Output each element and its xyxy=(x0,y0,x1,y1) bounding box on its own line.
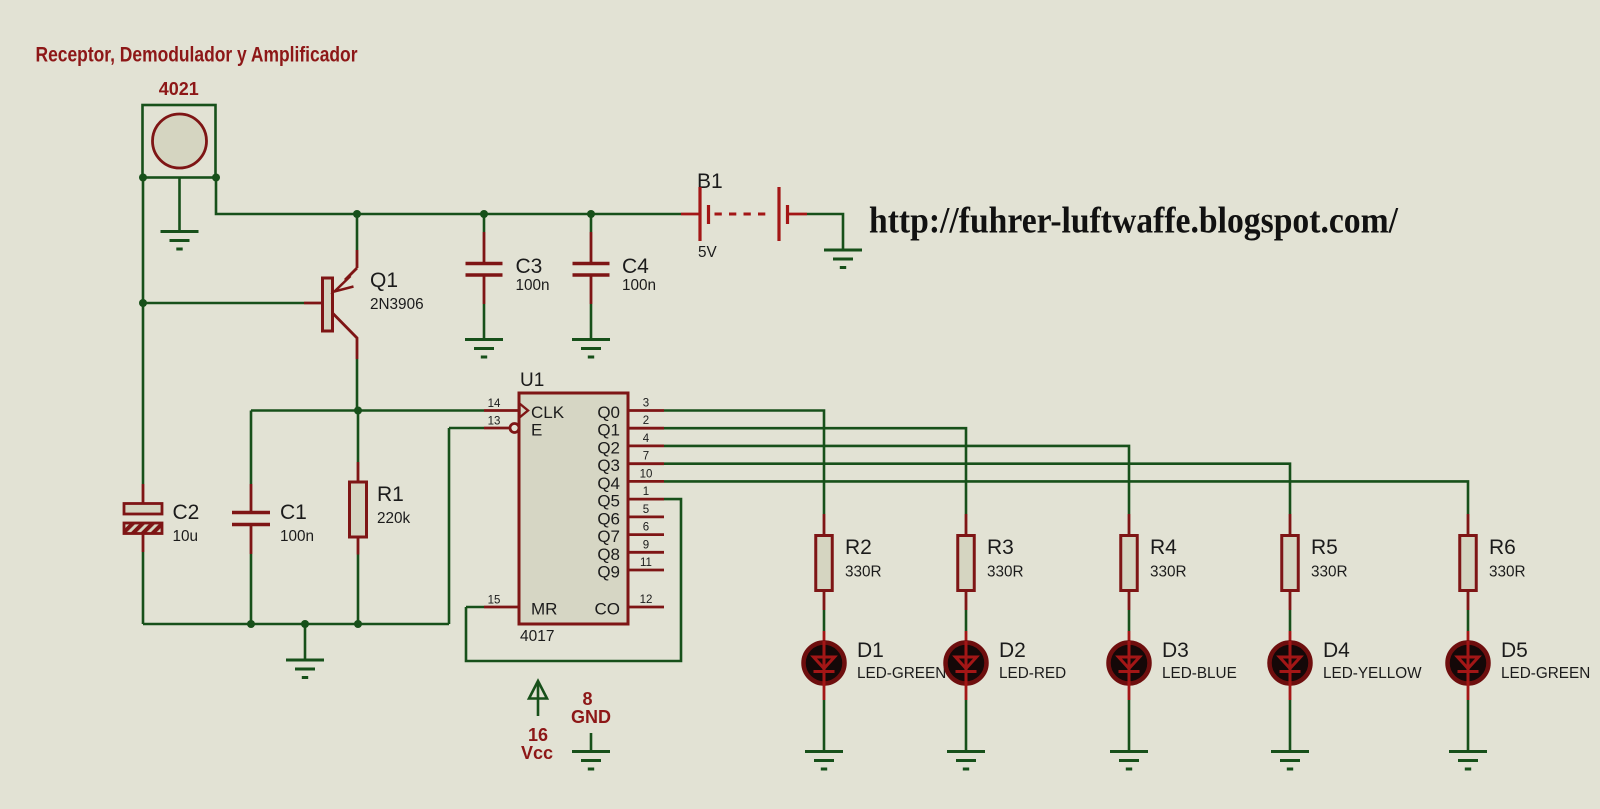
svg-text:R3: R3 xyxy=(987,536,1014,559)
value LED-YELLOW xyxy=(1323,665,1422,682)
value 100n (C3) xyxy=(516,277,550,294)
svg-text:1: 1 xyxy=(643,486,649,498)
resistor R1 pin top xyxy=(357,462,360,482)
pin 5 Q6 xyxy=(628,516,664,519)
pin name Q6 xyxy=(597,509,620,528)
wire D4 to ground xyxy=(1289,700,1292,752)
pin 15 MR xyxy=(484,606,519,609)
pin 1 Q5 xyxy=(628,498,664,501)
svg-text:10: 10 xyxy=(640,468,653,480)
label D5 xyxy=(1501,639,1528,662)
svg-text:R6: R6 xyxy=(1489,536,1516,559)
capacitor C1 xyxy=(232,513,270,525)
wire C3 top lead xyxy=(483,214,486,232)
label R5 xyxy=(1311,536,1338,559)
svg-text:100n: 100n xyxy=(280,528,314,545)
pin number 11 xyxy=(640,557,652,569)
svg-text:330R: 330R xyxy=(1489,564,1526,581)
pin number 7 xyxy=(643,451,649,463)
svg-text:LED-YELLOW: LED-YELLOW xyxy=(1323,665,1422,682)
wire R1 to bottom rail xyxy=(357,555,360,625)
svg-text:Q5: Q5 xyxy=(597,492,620,511)
wire rail ground stem xyxy=(304,624,307,660)
svg-text:Vcc: Vcc xyxy=(521,743,553,763)
svg-text:2N3906: 2N3906 xyxy=(370,296,424,313)
pin 9 Q8 xyxy=(628,551,664,554)
pin number 15 xyxy=(488,595,501,607)
resistor R1 xyxy=(350,482,367,537)
transistor Q1 collector xyxy=(333,313,358,359)
wire E row xyxy=(449,427,484,430)
pin number 16 xyxy=(528,725,548,745)
pin number 1 xyxy=(643,486,649,498)
resistor R4 pin top xyxy=(1128,514,1131,536)
pin number 9 xyxy=(643,539,649,551)
ground under D2 xyxy=(947,752,985,770)
svg-text:12: 12 xyxy=(640,594,653,606)
label D4 xyxy=(1323,639,1350,662)
svg-text:R5: R5 xyxy=(1311,536,1338,559)
node emitter junction xyxy=(353,210,361,218)
svg-text:LED-RED: LED-RED xyxy=(999,665,1066,682)
svg-text:Q3: Q3 xyxy=(597,456,620,475)
svg-text:D3: D3 xyxy=(1162,639,1189,662)
pin number 6 xyxy=(643,522,649,534)
wire Q0 to R2 column xyxy=(664,411,824,515)
svg-text:5V: 5V xyxy=(698,244,718,261)
pin name MR xyxy=(531,600,557,619)
svg-text:11: 11 xyxy=(640,557,652,569)
svg-text:13: 13 xyxy=(488,416,501,428)
svg-text:Q9: Q9 xyxy=(597,563,620,582)
resistor R1 pin bottom xyxy=(357,537,360,555)
LED D1 xyxy=(804,631,845,700)
pin name Q5 xyxy=(597,492,620,511)
wire R2 to D1 xyxy=(823,610,826,631)
svg-text:Q7: Q7 xyxy=(597,527,620,546)
svg-text:C1: C1 xyxy=(280,501,307,524)
capacitor C2 pin top xyxy=(142,484,145,504)
resistor R2 pin top xyxy=(823,514,826,536)
svg-text:7: 7 xyxy=(643,451,649,463)
label B1 xyxy=(697,170,723,193)
resistor R6 pin bottom xyxy=(1467,591,1470,611)
pin number 2 xyxy=(643,415,649,427)
wire MR left xyxy=(466,606,484,609)
wire C4 to ground xyxy=(590,304,593,340)
node base tee xyxy=(139,299,147,307)
svg-text:D2: D2 xyxy=(999,639,1026,662)
pin 12 CO xyxy=(628,606,664,609)
wire D2 to ground xyxy=(965,700,968,752)
pin name CLK xyxy=(531,403,565,422)
wire R1 top lead xyxy=(357,411,360,463)
pin name Q7 xyxy=(597,527,620,546)
resistor R5 xyxy=(1282,536,1299,591)
resistor R6 pin top xyxy=(1467,514,1470,536)
svg-text:10u: 10u xyxy=(173,528,199,545)
value LED-BLUE xyxy=(1162,665,1237,682)
label C3 xyxy=(516,255,543,278)
wire Q1 emitter up xyxy=(356,214,359,250)
value 5V xyxy=(698,244,718,261)
transistor Q1 base pin xyxy=(304,302,323,305)
svg-text:MR: MR xyxy=(531,600,557,619)
capacitor C4 xyxy=(573,264,610,276)
svg-text:5: 5 xyxy=(643,504,649,516)
value 330R (R6) xyxy=(1489,564,1526,581)
capacitor C3 xyxy=(466,264,503,276)
resistor R4 xyxy=(1121,536,1138,591)
op-amp U1 body xyxy=(519,393,628,624)
wire receiver center to ground xyxy=(178,178,181,232)
wire battery to ground xyxy=(807,214,843,250)
label R1 xyxy=(377,483,404,506)
wire E vertical xyxy=(448,428,451,624)
value LED-GREEN xyxy=(857,665,946,682)
node receiver left pin xyxy=(139,174,147,182)
pin name Q4 xyxy=(597,474,620,493)
svg-text:9: 9 xyxy=(643,539,649,551)
wire base horizontal xyxy=(143,302,304,305)
title text xyxy=(36,44,358,67)
label C1 xyxy=(280,501,307,524)
pin 11 Q9 xyxy=(628,569,664,572)
value 330R (R3) xyxy=(987,564,1024,581)
svg-text:330R: 330R xyxy=(845,564,882,581)
value 330R (R5) xyxy=(1311,564,1348,581)
capacitor C3 pin bottom xyxy=(483,277,486,305)
label Q1 xyxy=(370,269,398,292)
LED D3 xyxy=(1109,631,1150,700)
value 330R (R4) xyxy=(1150,564,1187,581)
svg-text:Q1: Q1 xyxy=(597,421,620,440)
capacitor C4 pin bottom xyxy=(590,277,593,305)
wire C1 to bottom rail xyxy=(250,554,253,624)
wire C3 to ground xyxy=(483,304,486,340)
svg-text:330R: 330R xyxy=(987,564,1024,581)
pin 10 Q4 xyxy=(628,480,664,483)
node ground tee xyxy=(301,620,309,628)
svg-text:16: 16 xyxy=(528,725,548,745)
svg-text:E: E xyxy=(531,421,542,440)
capacitor C2 xyxy=(124,504,162,534)
ground right of battery xyxy=(824,250,862,268)
label GND xyxy=(571,707,611,727)
wire Q4 to R6 column xyxy=(664,481,1468,514)
label R6 xyxy=(1489,536,1516,559)
resistor R5 pin bottom xyxy=(1289,591,1292,611)
wire D3 to ground xyxy=(1128,700,1131,752)
ground under bottom rail xyxy=(286,660,324,678)
svg-text:4: 4 xyxy=(643,433,650,445)
svg-text:Receptor, Demodulador y Amplif: Receptor, Demodulador y Amplificador xyxy=(36,44,358,67)
wire D1 to ground xyxy=(823,700,826,752)
node receiver right pin xyxy=(212,174,220,182)
pin name Q8 xyxy=(597,545,620,564)
transistor Q1 emitter with arrow xyxy=(335,250,358,292)
label D1 xyxy=(857,639,884,662)
value LED-RED xyxy=(999,665,1066,682)
label Vcc xyxy=(521,743,553,763)
label C4 xyxy=(622,255,649,278)
label D2 xyxy=(999,639,1026,662)
resistor R2 pin bottom xyxy=(823,591,826,611)
value LED-GREEN xyxy=(1501,665,1590,682)
ground under D4 xyxy=(1271,752,1309,770)
svg-text:100n: 100n xyxy=(622,277,656,294)
battery B1 xyxy=(681,187,807,241)
svg-text:LED-GREEN: LED-GREEN xyxy=(1501,665,1590,682)
capacitor C2 pin bottom xyxy=(142,534,145,553)
svg-text:8: 8 xyxy=(582,689,592,709)
wire Q1 to R3 column xyxy=(664,428,966,514)
pin name Q3 xyxy=(597,456,620,475)
wire left vertical (receiver to C2) xyxy=(142,178,145,485)
ground under C3 xyxy=(465,340,503,358)
svg-text:Q0: Q0 xyxy=(597,403,620,422)
svg-text:http://fuhrer-luftwaffe.blogsp: http://fuhrer-luftwaffe.blogspot.com/ xyxy=(869,200,1399,241)
svg-text:2: 2 xyxy=(643,415,649,427)
svg-text:Q8: Q8 xyxy=(597,545,620,564)
pin name Q0 xyxy=(597,403,620,422)
LED D5 xyxy=(1448,631,1489,700)
pin number 5 xyxy=(643,504,649,516)
svg-text:6: 6 xyxy=(643,522,649,534)
label 4021 xyxy=(159,78,199,99)
pin 7 Q3 xyxy=(628,462,664,465)
resistor R3 xyxy=(958,536,975,591)
svg-text:CLK: CLK xyxy=(531,403,565,422)
pin 6 Q7 xyxy=(628,533,664,536)
pin 14 CLK xyxy=(484,404,528,418)
wire D5 to ground xyxy=(1467,700,1470,752)
svg-text:3: 3 xyxy=(643,398,649,410)
pin number 4 xyxy=(643,433,650,445)
wire Q5 to MR loop xyxy=(466,499,681,661)
value 10u xyxy=(173,528,199,545)
svg-text:LED-GREEN: LED-GREEN xyxy=(857,665,946,682)
resistor R3 pin bottom xyxy=(965,591,968,611)
svg-text:Q1: Q1 xyxy=(370,269,398,292)
resistor R5 pin top xyxy=(1289,514,1292,536)
value 2N3906 xyxy=(370,296,424,313)
node C4 junction xyxy=(587,210,595,218)
value 330R (R2) xyxy=(845,564,882,581)
capacitor C1 pin bottom xyxy=(250,526,253,554)
value 4017 xyxy=(520,628,554,645)
value 100n (C4) xyxy=(622,277,656,294)
node C3 junction xyxy=(480,210,488,218)
pin number 12 xyxy=(640,594,653,606)
node R1 bottom xyxy=(354,620,362,628)
svg-text:R2: R2 xyxy=(845,536,872,559)
node R1/collector junction xyxy=(354,407,362,415)
svg-text:C2: C2 xyxy=(173,501,200,524)
svg-text:CO: CO xyxy=(595,600,621,619)
label R4 xyxy=(1150,536,1177,559)
node C1 bottom xyxy=(247,620,255,628)
capacitor C1 pin top xyxy=(250,484,253,511)
capacitor C4 pin top xyxy=(590,232,593,262)
label D3 xyxy=(1162,639,1189,662)
wire bottom rail xyxy=(143,623,449,626)
svg-text:D5: D5 xyxy=(1501,639,1528,662)
resistor R3 pin top xyxy=(965,514,968,536)
svg-text:Q4: Q4 xyxy=(597,474,620,493)
IR receiver RX1 body xyxy=(143,105,216,178)
resistor R2 xyxy=(816,536,833,591)
capacitor C3 pin top xyxy=(483,232,486,262)
pin 2 Q1 xyxy=(628,427,664,430)
pin number 10 xyxy=(640,468,653,480)
wire R6 to D5 xyxy=(1467,610,1470,631)
svg-text:100n: 100n xyxy=(516,277,550,294)
label U1 xyxy=(520,370,544,391)
svg-text:15: 15 xyxy=(488,595,501,607)
wire CLK row (C1/R1 to pin 14) xyxy=(251,409,484,412)
label R2 xyxy=(845,536,872,559)
LED D4 xyxy=(1270,631,1311,700)
wire GND stem xyxy=(590,733,593,752)
pin 3 Q0 xyxy=(628,409,664,412)
label R3 xyxy=(987,536,1014,559)
value 220k xyxy=(377,510,411,527)
ground under D3 xyxy=(1110,752,1148,770)
pin 13 E bubble xyxy=(484,424,519,433)
svg-text:D1: D1 xyxy=(857,639,884,662)
LED D2 xyxy=(946,631,987,700)
wire top rail xyxy=(216,178,681,215)
ground under D1 xyxy=(805,752,843,770)
svg-text:C3: C3 xyxy=(516,255,543,278)
svg-text:220k: 220k xyxy=(377,510,411,527)
ground under C4 xyxy=(572,340,610,358)
wire Q3 to R5 column xyxy=(664,464,1290,514)
svg-text:R4: R4 xyxy=(1150,536,1177,559)
svg-text:C4: C4 xyxy=(622,255,649,278)
pin number 14 xyxy=(488,398,501,410)
ground symbol for pin 8 xyxy=(572,752,610,770)
pin name E xyxy=(531,421,542,440)
svg-text:D4: D4 xyxy=(1323,639,1350,662)
svg-text:330R: 330R xyxy=(1150,564,1187,581)
wire R5 to D4 xyxy=(1289,610,1292,631)
transistor Q1 body xyxy=(323,278,333,331)
wire R3 to D2 xyxy=(965,610,968,631)
svg-text:14: 14 xyxy=(488,398,501,410)
svg-text:Q6: Q6 xyxy=(597,509,620,528)
resistor R4 pin bottom xyxy=(1128,591,1131,611)
URL text xyxy=(869,200,1399,241)
wire collector down xyxy=(356,359,359,411)
power Vcc arrow xyxy=(529,681,547,716)
pin name CO xyxy=(595,600,621,619)
svg-text:GND: GND xyxy=(571,707,611,727)
svg-text:4017: 4017 xyxy=(520,628,554,645)
pin name Q9 xyxy=(597,563,620,582)
wire C4 top lead xyxy=(590,214,593,232)
label C2 xyxy=(173,501,200,524)
wire C1 top lead xyxy=(250,411,253,485)
pin number 13 xyxy=(488,416,501,428)
wire C2 to bottom rail xyxy=(142,552,145,624)
pin name Q1 xyxy=(597,421,620,440)
value 100n (C1) xyxy=(280,528,314,545)
resistor R6 xyxy=(1460,536,1477,591)
ground under receiver xyxy=(161,232,199,250)
pin name Q2 xyxy=(597,438,620,457)
svg-text:LED-BLUE: LED-BLUE xyxy=(1162,665,1237,682)
pin number 3 xyxy=(643,398,649,410)
ground under D5 xyxy=(1449,752,1487,770)
pin 4 Q2 xyxy=(628,444,664,447)
svg-text:4021: 4021 xyxy=(159,78,199,99)
svg-text:U1: U1 xyxy=(520,370,544,391)
wire Q2 to R4 column xyxy=(664,446,1129,514)
svg-text:R1: R1 xyxy=(377,483,404,506)
pin number 8 xyxy=(582,689,592,709)
svg-text:330R: 330R xyxy=(1311,564,1348,581)
svg-text:Q2: Q2 xyxy=(597,438,620,457)
wire R4 to D3 xyxy=(1128,610,1131,631)
